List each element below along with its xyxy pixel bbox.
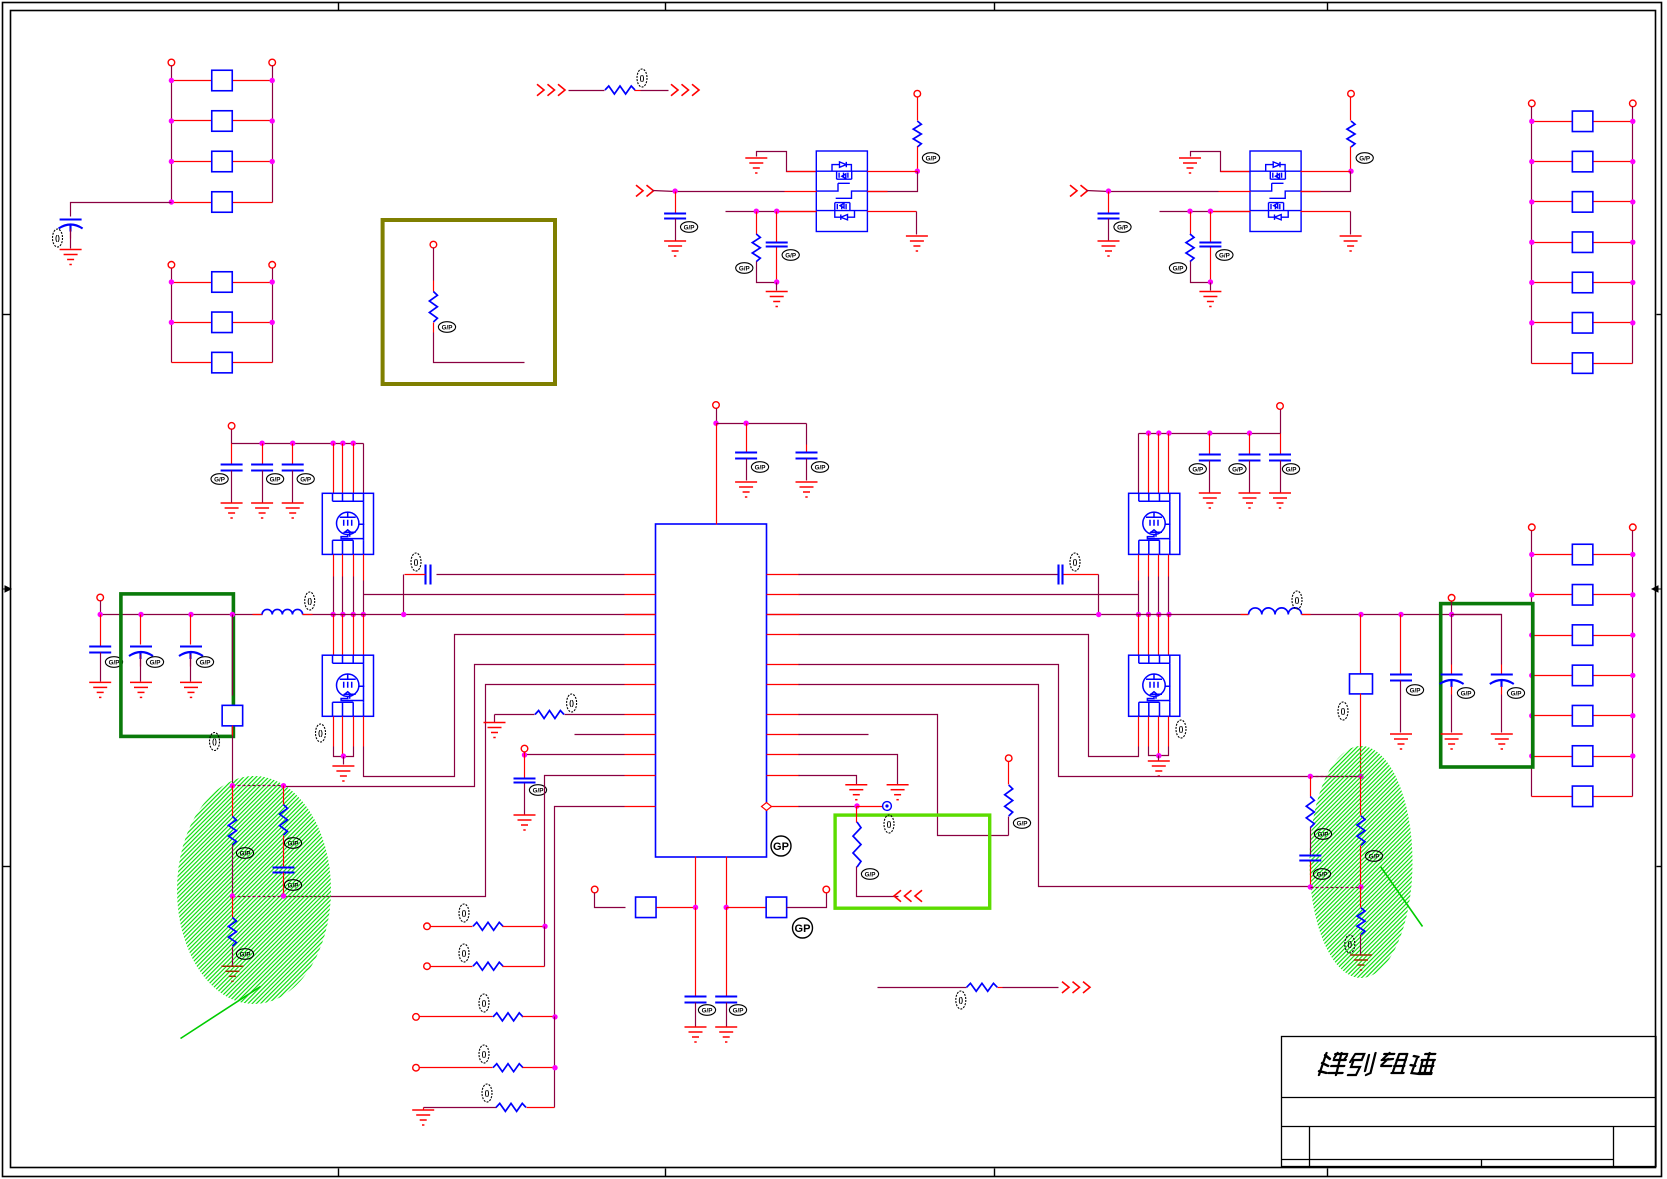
svg-text:G/P: G/P xyxy=(1219,252,1230,259)
svg-text:G/P: G/P xyxy=(1286,466,1297,473)
wire xyxy=(1350,212,1352,235)
pull resistor row C xyxy=(413,1014,420,1021)
wires Q4 to main line xyxy=(1148,555,1150,577)
svg-text:G/P: G/P xyxy=(300,476,311,483)
svg-text:G/P: G/P xyxy=(1117,224,1128,231)
RN4 resistor row 1 xyxy=(1532,554,1573,556)
R4 label xyxy=(637,69,647,87)
top rail wire xyxy=(716,409,718,424)
bulk capacitor xyxy=(140,615,142,645)
RN4 resistor row 6 xyxy=(1532,756,1573,758)
ground xyxy=(766,292,788,307)
decoupling cap 1 xyxy=(1207,430,1212,435)
green hatched highlight ellipse left xyxy=(177,776,331,1004)
decoupling cap 3 xyxy=(1280,434,1282,455)
resistor R9 box xyxy=(766,897,787,918)
GP label xyxy=(793,918,813,938)
svg-text:GP: GP xyxy=(773,841,789,853)
wire from arrow xyxy=(653,191,676,192)
label xyxy=(736,263,753,274)
junction xyxy=(1348,169,1353,174)
port in olive box xyxy=(430,241,437,248)
wire xyxy=(917,147,919,172)
bottom pins wires xyxy=(695,857,697,908)
svg-text:G/P: G/P xyxy=(1173,265,1184,272)
svg-text:G/P: G/P xyxy=(739,265,750,272)
L1 label xyxy=(305,592,315,610)
wire xyxy=(1360,694,1362,777)
Q3 label xyxy=(316,724,326,742)
C20 label xyxy=(1507,688,1524,699)
divider resistor R16 xyxy=(232,786,234,817)
capacitor xyxy=(664,214,686,219)
wire xyxy=(1160,211,1251,213)
C18 label xyxy=(1406,685,1423,696)
svg-text:G/P: G/P xyxy=(200,659,211,666)
ground xyxy=(735,482,757,497)
svg-text:(): () xyxy=(485,1091,490,1098)
row 665 wire to right ellipse xyxy=(799,665,1361,777)
svg-text:G/P: G/P xyxy=(270,476,281,483)
ground xyxy=(887,785,909,800)
svg-text:(): () xyxy=(212,739,217,746)
ground xyxy=(796,482,818,497)
wires Q2 to main line xyxy=(333,555,335,577)
RN3 resistor row 4 xyxy=(1532,242,1573,244)
IC U1 xyxy=(656,524,767,857)
bulk capacitor xyxy=(190,615,192,645)
RN3 resistor row 2 xyxy=(1532,161,1573,163)
C1 label xyxy=(53,229,63,247)
ground xyxy=(514,815,536,830)
svg-text:(): () xyxy=(307,599,312,606)
svg-text:(): () xyxy=(462,951,467,958)
ground xyxy=(906,236,928,251)
capacitor C7 xyxy=(100,615,102,647)
decoupling cap 1 xyxy=(231,444,233,465)
svg-text:(): () xyxy=(414,560,419,567)
rail wire xyxy=(544,927,546,967)
svg-text:G/P: G/P xyxy=(288,840,299,847)
wire xyxy=(1310,862,1312,887)
capacitor C1 xyxy=(59,220,83,232)
wire xyxy=(1191,262,1211,283)
ground elbow wire xyxy=(1191,152,1251,172)
ground xyxy=(130,682,152,697)
svg-text:G/P: G/P xyxy=(109,659,120,666)
wire xyxy=(776,248,778,283)
ground xyxy=(1441,734,1463,749)
wire xyxy=(1210,212,1212,243)
row 755 wire to ground xyxy=(799,755,898,785)
green annotation line xyxy=(181,987,261,1039)
capacitor C12 xyxy=(685,997,707,1003)
wire to Q xyxy=(676,191,785,193)
row 775 wire to ground xyxy=(799,776,857,785)
ellipse bottom rail wire xyxy=(233,896,284,898)
green hatched highlight ellipse right xyxy=(1310,746,1413,978)
ground dark xyxy=(1350,955,1372,970)
wire xyxy=(635,90,641,92)
wire xyxy=(1360,846,1362,887)
frame tick marks xyxy=(338,3,340,11)
wires main line to Q5 xyxy=(1138,615,1140,656)
title block xyxy=(1282,1037,1657,1167)
svg-text:(): () xyxy=(1341,709,1346,716)
R7 label xyxy=(210,733,220,751)
green highlight box right xyxy=(1441,604,1533,767)
wire xyxy=(433,248,435,281)
junction xyxy=(1208,279,1213,284)
label xyxy=(1216,250,1233,261)
wire row 594 to IC xyxy=(364,594,625,596)
ground xyxy=(1098,241,1120,256)
svg-text:(): () xyxy=(569,701,574,708)
ground xyxy=(221,503,243,518)
row 755 wire to port and cap C15 xyxy=(525,754,625,756)
svg-text:(): () xyxy=(1295,598,1300,605)
C16 label xyxy=(284,880,301,891)
svg-text:G/P: G/P xyxy=(240,850,251,857)
green bright highlight box xyxy=(835,815,990,908)
svg-text:GP: GP xyxy=(795,923,811,935)
resistor R4 xyxy=(605,86,635,94)
R17 label xyxy=(284,838,301,849)
resistor xyxy=(913,121,921,147)
ground xyxy=(685,1027,707,1042)
F1 label xyxy=(1338,702,1348,720)
junction xyxy=(774,279,779,284)
wire xyxy=(726,908,728,997)
junction xyxy=(1208,209,1213,214)
wire xyxy=(757,262,777,283)
row 685 wire to left ellipse xyxy=(284,685,625,897)
off-page arrow in xyxy=(1070,185,1088,196)
wires rail to Q4 xyxy=(1146,430,1151,435)
svg-text:G/P: G/P xyxy=(1359,155,1370,162)
svg-text:G/P: G/P xyxy=(1369,853,1380,860)
wire to IC xyxy=(716,424,718,525)
capacitor C16 xyxy=(273,868,295,873)
svg-text:(): () xyxy=(462,911,467,918)
svg-text:G/P: G/P xyxy=(240,951,251,958)
port xyxy=(1448,595,1455,602)
junction xyxy=(230,612,235,617)
bulk capacitor C19 xyxy=(1451,615,1453,665)
mosfet Q5 xyxy=(1129,655,1180,716)
R20 label xyxy=(1013,818,1030,829)
decoupling cap 2 xyxy=(1247,430,1252,435)
wire xyxy=(343,757,345,765)
dual mosfet Q xyxy=(1250,151,1301,232)
IC pin stubs right xyxy=(767,575,800,807)
resistor R24 xyxy=(967,983,998,991)
ground xyxy=(484,723,506,738)
wire to Q pin xyxy=(1301,171,1351,173)
svg-text:G/P: G/P xyxy=(1461,690,1472,697)
svg-text:G/P: G/P xyxy=(684,224,695,231)
ground xyxy=(1179,158,1201,173)
capacitor xyxy=(1199,243,1221,247)
wire xyxy=(595,893,626,908)
off-page arrows out xyxy=(1062,982,1090,993)
wires Q5 converge to ground xyxy=(1148,717,1150,747)
ground xyxy=(282,503,304,518)
wire row 594 to IC xyxy=(799,594,1139,596)
svg-text:G/P: G/P xyxy=(1410,687,1421,694)
ground xyxy=(1390,734,1412,749)
resistor R23 xyxy=(1360,887,1362,908)
wire xyxy=(1158,756,1160,761)
green highlight box left xyxy=(121,594,233,737)
mosfet Q2 xyxy=(322,493,373,554)
label xyxy=(1356,153,1373,164)
wire xyxy=(1360,615,1362,674)
wire xyxy=(787,893,827,908)
wire xyxy=(1350,97,1352,121)
ground xyxy=(1239,493,1261,508)
wire xyxy=(998,987,1003,989)
svg-text:(): () xyxy=(1179,727,1184,734)
C7 label xyxy=(105,657,122,668)
RN2 resistor row 3 xyxy=(172,362,212,364)
wire xyxy=(1108,192,1110,214)
R16 label xyxy=(236,848,253,859)
resistor column RN4 xyxy=(1529,524,1536,531)
ground xyxy=(715,1027,737,1042)
resistor R3 xyxy=(429,292,437,323)
R22 label xyxy=(1365,851,1382,862)
svg-text:G/P: G/P xyxy=(926,155,937,162)
olive highlight box xyxy=(383,220,555,384)
ground xyxy=(1199,292,1221,307)
C12 label xyxy=(698,1005,715,1016)
wire xyxy=(675,219,677,241)
junction xyxy=(1398,612,1403,617)
resistor R20 xyxy=(1008,817,1010,836)
svg-text:G/P: G/P xyxy=(785,252,796,259)
resistor xyxy=(1186,234,1194,262)
junction xyxy=(774,209,779,214)
bottom jumper wire xyxy=(878,987,967,989)
RN3 resistor row 5 xyxy=(1532,282,1573,284)
RN1 resistor row 2 xyxy=(172,120,212,122)
RN3 resistor row 3 xyxy=(1532,201,1573,203)
svg-text:G/P: G/P xyxy=(442,324,453,331)
off-page arrow in xyxy=(636,185,654,196)
mosfet Q3 xyxy=(322,655,373,716)
port xyxy=(823,886,830,893)
wire xyxy=(1350,147,1352,172)
svg-text:G/P: G/P xyxy=(865,871,876,878)
main power rail wire xyxy=(101,614,263,616)
svg-text:G/P: G/P xyxy=(533,787,544,794)
port xyxy=(1005,755,1012,762)
port xyxy=(1277,403,1284,410)
wire xyxy=(232,615,234,696)
capacitor C21 xyxy=(1299,856,1321,861)
wire xyxy=(857,867,899,897)
wire xyxy=(657,907,696,909)
wire xyxy=(868,172,918,192)
ground xyxy=(1269,493,1291,508)
RN3 resistor row 1 xyxy=(1532,121,1573,123)
resistor R18 xyxy=(232,897,234,918)
RN4 resistor row 3 xyxy=(1532,635,1573,637)
RN3 resistor row 7 xyxy=(1532,363,1573,365)
pull resistor row D xyxy=(413,1064,420,1071)
ground xyxy=(1340,236,1362,251)
label xyxy=(922,153,939,164)
ground xyxy=(251,503,273,518)
capacitor C13 xyxy=(715,997,737,1003)
wire xyxy=(1310,828,1312,856)
row 775 wire to rail xyxy=(545,776,625,927)
label xyxy=(811,462,828,473)
junction xyxy=(915,169,920,174)
port xyxy=(914,90,921,97)
wire xyxy=(1108,219,1110,241)
RN4 resistor row 4 xyxy=(1532,675,1573,677)
capacitor xyxy=(766,243,788,247)
off-page arrows out xyxy=(671,84,699,95)
ellipse top rail wire xyxy=(233,785,284,787)
svg-text:G/P: G/P xyxy=(733,1007,744,1014)
fuse F1 box xyxy=(1350,674,1373,694)
svg-text:(): () xyxy=(318,731,323,738)
divider resistor R17 xyxy=(283,786,285,805)
company name text xyxy=(1318,1053,1436,1075)
ground xyxy=(332,766,354,781)
svg-text:G/P: G/P xyxy=(755,464,766,471)
wire xyxy=(727,907,767,909)
green annotation line xyxy=(1381,867,1423,927)
junction xyxy=(672,188,677,193)
wire xyxy=(1301,211,1351,213)
resistor xyxy=(752,234,760,262)
C15 label xyxy=(529,785,546,796)
ground xyxy=(180,682,202,697)
top rail wire xyxy=(1311,776,1362,778)
ground xyxy=(1491,734,1513,749)
wire Q3 pin to row 635 xyxy=(363,717,365,747)
junction xyxy=(138,612,143,617)
label xyxy=(681,222,698,233)
row 735 stub wire xyxy=(799,734,869,736)
capacitor C18 xyxy=(1390,675,1412,681)
wire xyxy=(1451,602,1453,615)
wire xyxy=(232,726,234,736)
dual mosfet Q xyxy=(816,151,867,232)
inductor L2 xyxy=(1241,614,1249,616)
row 685 wire to right ellipse xyxy=(799,685,1311,887)
svg-text:G/P: G/P xyxy=(214,476,225,483)
R19 label top xyxy=(884,815,894,833)
rail wire xyxy=(554,1017,556,1108)
C19 label xyxy=(1457,688,1474,699)
decoupling cap xyxy=(746,424,748,453)
label xyxy=(1169,263,1186,274)
svg-text:G/P: G/P xyxy=(702,1007,713,1014)
bulk capacitor C20 xyxy=(1452,615,1502,665)
ground dark xyxy=(221,966,243,981)
label xyxy=(146,657,163,668)
wire xyxy=(1190,212,1192,235)
RN3 resistor row 6 xyxy=(1532,322,1573,324)
resistor array RN2 xyxy=(168,262,175,269)
resistor R21 xyxy=(1310,777,1312,797)
svg-text:G/P: G/P xyxy=(1232,466,1243,473)
Q5 label xyxy=(1176,720,1186,738)
port xyxy=(1348,90,1355,97)
ground xyxy=(1148,761,1170,776)
row 735 stub wire xyxy=(575,734,625,736)
decoupling cap xyxy=(806,424,808,445)
svg-text:G/P: G/P xyxy=(815,464,826,471)
svg-text:(): () xyxy=(887,822,892,829)
resistor array RN1 xyxy=(168,59,175,66)
wire to Q xyxy=(1109,191,1219,193)
svg-text:G/P: G/P xyxy=(1318,831,1329,838)
ground xyxy=(1199,493,1221,508)
svg-text:G/P: G/P xyxy=(1017,820,1028,827)
wire from arrow xyxy=(1087,191,1109,192)
top rail wire xyxy=(1280,410,1282,434)
R23 label xyxy=(1345,935,1355,953)
RN2 resistor row 2 xyxy=(172,322,212,324)
IC pin stubs left xyxy=(625,575,656,807)
frame mid arrows xyxy=(2,586,11,592)
inductor L1 xyxy=(253,614,263,616)
wire to Q pin xyxy=(868,171,918,173)
wire xyxy=(917,97,919,121)
wire xyxy=(695,908,697,997)
RN1 resistor row 3 xyxy=(172,161,212,163)
top rail wire xyxy=(231,430,233,444)
ground xyxy=(845,785,867,800)
RN1 resistor row 1 xyxy=(172,80,212,82)
svg-text:G/P: G/P xyxy=(1192,466,1203,473)
wire xyxy=(675,192,677,214)
ground xyxy=(89,682,111,697)
svg-text:(): () xyxy=(482,1001,487,1008)
row 715 wire to pullup resistor R20 xyxy=(799,715,1009,836)
pull resistor row A xyxy=(424,923,431,930)
wire Q5 pin to row 635 xyxy=(1138,717,1140,747)
resistor R22 xyxy=(1360,777,1362,816)
junction xyxy=(754,209,759,214)
off-page arrows in xyxy=(537,84,565,95)
resistor R19 xyxy=(856,807,858,823)
L2 label xyxy=(1292,591,1302,609)
svg-text:(): () xyxy=(1347,942,1352,949)
svg-text:G/P: G/P xyxy=(150,659,161,666)
C21 label xyxy=(1313,869,1330,880)
ground for C1 xyxy=(60,250,82,265)
junction xyxy=(724,905,729,910)
R21 label xyxy=(1314,829,1331,840)
bottom rail wire xyxy=(1311,887,1362,889)
resistor R7 box xyxy=(222,705,243,726)
C17 label xyxy=(1070,553,1080,571)
wire xyxy=(1210,283,1212,291)
wire xyxy=(569,90,605,92)
row 714 resistor to ground xyxy=(565,714,625,716)
port top xyxy=(713,402,720,409)
wire xyxy=(1360,935,1362,955)
svg-text:G/P: G/P xyxy=(1511,690,1522,697)
capacitor xyxy=(1098,214,1120,219)
